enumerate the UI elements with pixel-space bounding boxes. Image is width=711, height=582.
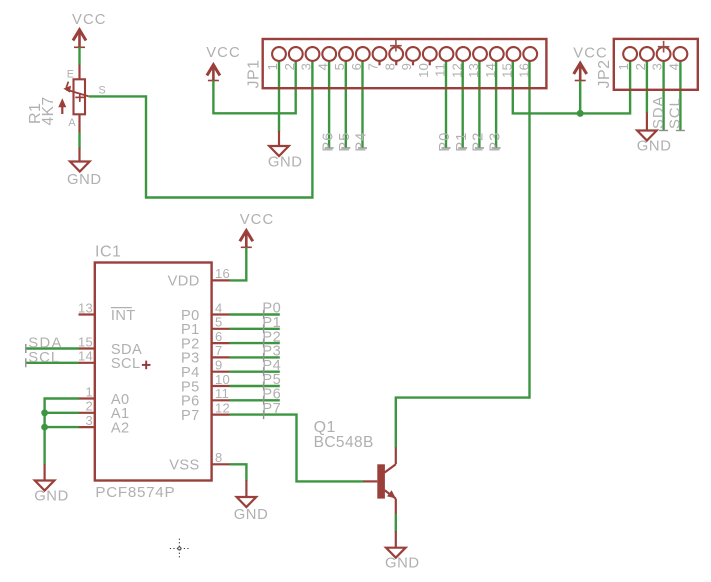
wire IC1 stub net P4 <box>230 371 280 373</box>
svg-text:VCC: VCC <box>206 45 241 61</box>
svg-text:P7: P7 <box>262 401 281 417</box>
label VCC (IC1 VDD) <box>240 212 275 228</box>
svg-text:P5: P5 <box>337 132 353 152</box>
svg-text:GND: GND <box>385 556 420 572</box>
svg-text:P1: P1 <box>454 132 470 152</box>
svg-text:INT: INT <box>111 308 136 324</box>
label GND (below R1) <box>67 172 102 188</box>
tick net P6 (IC right) <box>263 396 265 405</box>
svg-text:12: 12 <box>449 63 464 78</box>
wire JP1 stub net P2 <box>478 62 480 149</box>
wire R1 A pin to GND <box>78 132 80 148</box>
power symbol VCC (JP1 pin 2) <box>208 65 219 82</box>
svg-text:P6: P6 <box>320 132 336 152</box>
wire JP2 stub net SDA <box>662 61 664 131</box>
wire IC1 VSS to GND <box>230 464 247 481</box>
IC1 pin numbers <box>78 266 230 465</box>
label GND (Q1 emitter) <box>385 556 420 572</box>
svg-text:5: 5 <box>215 315 223 330</box>
tick net P7 (IC right) <box>263 410 265 419</box>
svg-text:11: 11 <box>215 386 229 401</box>
tick end of net P4 <box>358 147 367 149</box>
wire R1 S to JP1 pin 3 <box>89 62 313 198</box>
wire JP2 pin 2 to GND <box>646 61 648 113</box>
svg-text:SCL: SCL <box>668 97 684 129</box>
label VCC (above R1) <box>72 12 107 28</box>
ground symbol (IC1 VSS) <box>245 480 247 497</box>
svg-text:4: 4 <box>215 300 223 315</box>
label SDA (IC left) <box>28 335 62 351</box>
label P2 (IC right) <box>262 329 281 345</box>
wire Q1 emitter to GND <box>395 514 397 532</box>
wire JP1 stub net P4 <box>361 62 363 149</box>
svg-text:A2: A2 <box>111 420 130 436</box>
label PCF8574P <box>95 484 175 501</box>
tick end of net P6 <box>325 147 334 149</box>
JP1 pin numbers 1-16 <box>265 63 531 78</box>
svg-text:8: 8 <box>215 450 223 465</box>
label P1 (below JP1) <box>454 132 470 152</box>
svg-text:VDD: VDD <box>168 274 200 290</box>
svg-text:4K7: 4K7 <box>40 96 57 125</box>
svg-text:6: 6 <box>215 329 223 344</box>
label SDA (below JP2) <box>651 96 667 129</box>
label JP2 <box>596 59 613 88</box>
label P4 (IC right) <box>262 358 281 374</box>
wire JP1 stub net P0 <box>445 62 447 149</box>
ground triangle (below R1) <box>70 162 90 172</box>
svg-text:GND: GND <box>34 488 69 504</box>
svg-text:14: 14 <box>78 349 93 364</box>
wire IC1 P7 to Q1 base <box>230 415 364 482</box>
svg-text:5: 5 <box>332 63 347 71</box>
wire IC1 stub net P5 <box>230 385 280 387</box>
ground triangle (below JP1 pin 1) <box>269 146 289 156</box>
label GND (A2 net) <box>34 488 69 504</box>
wire IC1 stub net P6 <box>230 399 280 401</box>
label P0 (IC right) <box>262 301 281 317</box>
IC1 left pin lines <box>79 315 95 428</box>
power symbol VCC (above R1) <box>74 30 85 49</box>
JP1 origin cross <box>390 40 402 52</box>
label R1 <box>27 103 44 124</box>
svg-text:1: 1 <box>85 384 93 399</box>
svg-text:GND: GND <box>234 507 269 523</box>
svg-text:P7: P7 <box>181 408 200 424</box>
label P2 (below JP1) <box>471 132 487 152</box>
tick end of net P5 <box>341 147 350 149</box>
power symbol VCC (IC1 VDD) <box>241 231 252 249</box>
label JP1 <box>246 59 263 88</box>
svg-text:GND: GND <box>67 172 102 188</box>
transistor Q1 <box>363 448 395 515</box>
label SCL (IC left) <box>28 350 60 366</box>
tick end of net P2 <box>475 147 484 149</box>
svg-text:GND: GND <box>637 139 672 155</box>
label IC1 <box>95 244 121 261</box>
IC1 pin name labels <box>111 274 200 474</box>
svg-text:SCL: SCL <box>111 356 141 372</box>
JP2 pin circles <box>623 47 687 61</box>
svg-text:8: 8 <box>382 63 397 71</box>
label P3 (IC right) <box>262 344 281 360</box>
wire IC1 SDA stub <box>26 347 79 349</box>
wire JP1 stub net P6 <box>328 62 330 149</box>
svg-text:13: 13 <box>78 300 93 315</box>
label P5 (below JP1) <box>337 132 353 152</box>
label P5 (IC right) <box>262 372 281 388</box>
svg-text:13: 13 <box>466 63 481 78</box>
label VCC (JP1 pin 2) <box>206 45 241 61</box>
ground triangle (A2 net) <box>35 481 55 491</box>
tick net SCL (IC left) <box>25 358 27 367</box>
svg-text:4: 4 <box>666 63 681 71</box>
svg-text:9: 9 <box>399 63 414 71</box>
svg-text:3: 3 <box>650 63 665 71</box>
svg-text:P4: P4 <box>354 132 370 152</box>
svg-text:14: 14 <box>483 63 498 78</box>
wire JP2 stub net SCL <box>679 61 681 131</box>
label P6 (IC right) <box>262 387 281 403</box>
svg-text:3: 3 <box>85 413 93 428</box>
label GND (below JP1 pin 1) <box>268 155 303 171</box>
tick net P5 (IC right) <box>263 382 265 391</box>
svg-text:IC1: IC1 <box>95 244 121 261</box>
label P1 (IC right) <box>262 315 281 331</box>
wire R1 E pin to VCC <box>78 47 80 64</box>
svg-text:16: 16 <box>215 266 230 281</box>
label 4K7 <box>40 96 57 125</box>
svg-text:GND: GND <box>268 155 303 171</box>
svg-text:SDA: SDA <box>651 96 667 129</box>
svg-text:9: 9 <box>215 358 223 373</box>
svg-text:15: 15 <box>78 334 93 349</box>
JP2 pin numbers 1-4 <box>616 63 681 71</box>
wire IC1 A0 A1 A2 to GND <box>45 399 79 466</box>
svg-text:JP2: JP2 <box>596 59 613 88</box>
wire IC1 stub net P3 <box>230 356 280 358</box>
svg-text:12: 12 <box>215 400 230 415</box>
R1 pin label A <box>68 117 76 129</box>
tick net P3 (IC right) <box>263 353 265 362</box>
label GND (IC1 VSS) <box>234 507 269 523</box>
IC IC1 outline <box>95 263 212 481</box>
svg-text:VCC: VCC <box>72 12 107 28</box>
svg-text:BC548B: BC548B <box>314 434 374 451</box>
wire JP1 pin 15 to JP2 pin 1 (VCC) <box>513 61 630 114</box>
svg-text:A: A <box>68 117 76 129</box>
label P3 (below JP1) <box>487 132 503 152</box>
tick end of net P1 <box>458 147 467 149</box>
svg-text:1: 1 <box>616 63 631 71</box>
svg-text:JP1: JP1 <box>246 59 263 88</box>
connector JP2 outline <box>614 39 698 90</box>
wire IC1 stub net P0 <box>230 313 280 315</box>
tick net SDA (IC left) <box>25 344 27 353</box>
ground symbol (below JP2 pin 2) <box>646 113 648 131</box>
IC1 right pin lines <box>212 280 230 464</box>
tick net P1 (IC right) <box>263 324 265 333</box>
label P0 (below JP1) <box>437 132 453 152</box>
svg-text:6: 6 <box>349 63 364 71</box>
label VCC (JP2 pin 1) <box>573 46 608 62</box>
junction dot A2 <box>41 424 48 431</box>
ground symbol (below JP1 pin 1) <box>278 131 280 146</box>
tick end of net P3 <box>492 147 501 149</box>
resistor R1 (trimmer) body and wiper <box>58 64 89 133</box>
junction dot A1 <box>41 409 48 416</box>
svg-text:SCL: SCL <box>28 350 60 366</box>
ground triangle (Q1 emitter) <box>386 548 406 558</box>
tick net P0 (IC right) <box>263 310 265 319</box>
wire VCC to JP1 pin 2 <box>213 62 295 114</box>
svg-text:3: 3 <box>299 63 314 71</box>
label P4 (below JP1) <box>354 132 370 152</box>
svg-text:7: 7 <box>215 343 223 358</box>
wire IC1 SCL stub <box>26 362 79 364</box>
svg-text:16: 16 <box>516 63 531 78</box>
svg-text:P3: P3 <box>487 132 503 152</box>
svg-text:2: 2 <box>85 399 93 414</box>
svg-text:2: 2 <box>633 63 648 71</box>
tick end of JP2 net SCL <box>676 130 685 132</box>
wire junction to VCC symbol <box>579 81 581 114</box>
wire JP1 pin 16 to Q1 collector <box>396 62 530 449</box>
svg-text:P0: P0 <box>437 132 453 152</box>
ground triangle (below JP2 pin 2) <box>637 131 657 141</box>
sheet origin crosshair <box>170 539 189 559</box>
svg-text:E: E <box>67 68 74 80</box>
svg-text:2: 2 <box>282 63 297 71</box>
R1 pin label S <box>99 84 106 96</box>
power symbol VCC (JP2 pin 1) <box>575 63 586 81</box>
svg-text:10: 10 <box>416 63 431 78</box>
svg-text:P2: P2 <box>471 132 487 152</box>
wire IC1 stub net P1 <box>230 328 280 330</box>
svg-text:7: 7 <box>366 63 381 71</box>
wire IC1 stub net P2 <box>230 342 280 344</box>
svg-text:PCF8574P: PCF8574P <box>95 484 175 501</box>
svg-text:VCC: VCC <box>573 46 608 62</box>
JP2 origin cross <box>658 41 670 53</box>
svg-text:VCC: VCC <box>240 212 275 228</box>
tick net P4 (IC right) <box>263 367 265 376</box>
label SCL (below JP2) <box>668 97 684 129</box>
ground triangle (IC1 VSS) <box>237 497 257 507</box>
svg-text:10: 10 <box>215 372 230 387</box>
ground symbol (below R1) <box>78 148 80 162</box>
tick net P2 (IC right) <box>263 339 265 348</box>
label P6 (below JP1) <box>320 132 336 152</box>
svg-text:S: S <box>99 84 106 96</box>
tick end of JP2 net SDA <box>659 130 668 132</box>
svg-text:VSS: VSS <box>169 458 199 474</box>
svg-text:4: 4 <box>315 63 330 71</box>
R1 pin label E <box>67 68 74 80</box>
label Q1 <box>314 419 336 436</box>
wire IC1 VDD to VCC <box>230 247 247 280</box>
wire JP1 stub net P1 <box>462 62 464 149</box>
svg-text:15: 15 <box>500 63 515 78</box>
label BC548B <box>314 434 374 451</box>
ground symbol (A2 net) <box>43 464 45 480</box>
wire JP1 stub net P5 <box>345 62 347 149</box>
svg-text:1: 1 <box>265 63 280 71</box>
label P7 (IC right) <box>262 401 281 417</box>
connector JP1 outline <box>263 39 547 88</box>
R1 origin cross <box>75 93 84 102</box>
ground symbol (Q1 emitter) <box>395 531 397 548</box>
junction dot (VCC net) <box>577 110 584 117</box>
IC1 origin cross <box>142 361 151 370</box>
svg-text:11: 11 <box>433 63 448 77</box>
wire JP1 pin 1 to GND <box>278 62 280 132</box>
wire JP1 stub net P3 <box>495 62 497 149</box>
tick end of net P0 <box>442 147 451 149</box>
label GND (below JP2 pin 2) <box>637 139 672 155</box>
JP1 pin circles <box>272 47 537 65</box>
